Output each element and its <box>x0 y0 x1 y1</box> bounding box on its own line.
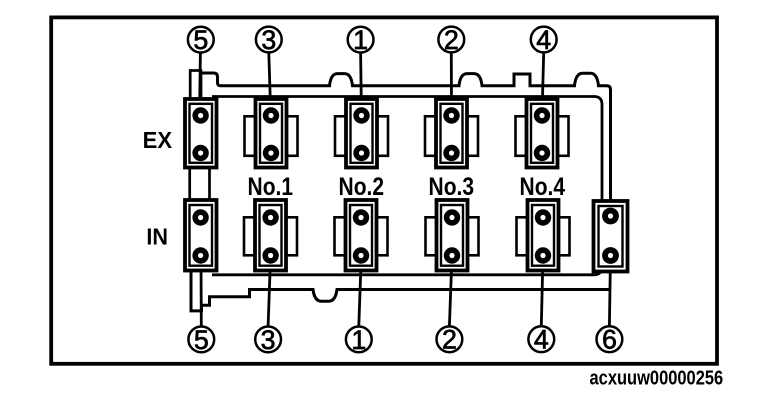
head outline bottom edge with notch and left steps <box>191 268 611 311</box>
head outline outer contour <box>202 73 611 210</box>
leader line bottom 3 <box>268 255 271 326</box>
camshaft cap IN front (no ears) <box>185 200 217 271</box>
camshaft cap No.3 bottom <box>426 200 479 271</box>
svg-text:acxuuw00000256: acxuuw00000256 <box>590 367 724 390</box>
camshaft cap No.4 top <box>516 99 569 168</box>
camshaft cap No.3 top <box>425 99 478 168</box>
camshaft cap rear No.6 (no ears) <box>594 201 628 272</box>
leader line top 5 <box>198 53 202 116</box>
sequence circle 2 bottom <box>437 325 463 355</box>
sequence circle 1 top <box>348 25 374 55</box>
svg-text:No.2: No.2 <box>339 173 385 201</box>
sequence circle 2 top <box>438 25 464 55</box>
svg-text:6: 6 <box>602 325 617 355</box>
camshaft cap No.1 top <box>245 99 298 168</box>
sequence circle 4 top <box>531 25 557 55</box>
leader line bottom 5 <box>200 260 203 326</box>
leader line bottom 6 <box>609 255 610 326</box>
sequence circle 5 top <box>188 25 214 55</box>
svg-text:3: 3 <box>261 325 276 355</box>
camshaft cap No.2 top <box>335 99 388 168</box>
sequence circle 3 top <box>256 25 282 55</box>
svg-text:1: 1 <box>351 325 366 355</box>
camshaft cap EX front (no ears) <box>185 99 217 168</box>
camshaft cap No.4 bottom <box>517 200 570 271</box>
svg-text:5: 5 <box>194 325 209 355</box>
svg-text:EX: EX <box>143 127 173 153</box>
left mounting strip tab (front journal top) <box>190 71 201 103</box>
svg-text:No.4: No.4 <box>520 173 566 201</box>
head outline inner contour <box>212 97 602 275</box>
leader line top 4 <box>542 53 544 116</box>
leader line bottom 2 <box>449 255 452 326</box>
svg-text:2: 2 <box>444 25 459 55</box>
svg-text:2: 2 <box>442 325 457 355</box>
svg-text:3: 3 <box>261 25 276 55</box>
svg-text:No.3: No.3 <box>429 173 475 201</box>
svg-text:No.1: No.1 <box>248 173 294 201</box>
svg-text:5: 5 <box>193 25 208 55</box>
sequence circle 6 bottom <box>597 325 623 355</box>
sequence circle 3 bottom <box>255 325 281 355</box>
leader line bottom 4 <box>541 255 543 326</box>
camshaft cap No.2 bottom <box>335 200 388 271</box>
sequence circle 4 bottom <box>528 325 554 355</box>
sequence circle 5 bottom <box>188 325 214 355</box>
left journal web between EX and IN caps <box>190 164 210 204</box>
svg-text:4: 4 <box>534 325 549 355</box>
leader line bottom 1 <box>359 255 362 326</box>
leader line top 1 <box>359 53 363 116</box>
camshaft cap No.1 bottom <box>244 200 297 271</box>
leader line top 3 <box>269 53 271 116</box>
leader line top 2 <box>450 53 453 116</box>
border frame <box>51 17 717 363</box>
sequence circle 1 bottom <box>346 325 372 355</box>
svg-text:1: 1 <box>353 25 368 55</box>
svg-text:IN: IN <box>146 224 168 250</box>
svg-text:4: 4 <box>536 25 551 55</box>
